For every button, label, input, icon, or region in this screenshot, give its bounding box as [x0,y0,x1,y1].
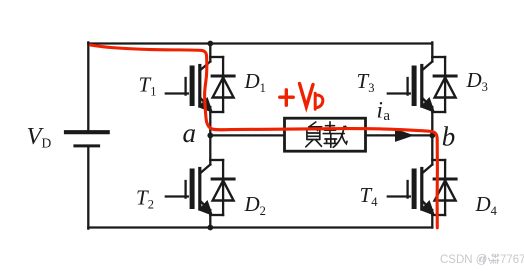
svg-text:T4: T4 [360,183,379,209]
svg-text:a: a [183,118,197,148]
svg-text:D3: D3 [466,68,488,94]
transistor T4 [388,135,434,227]
node junction bottom of T2 leg [207,225,213,231]
svg-text:D1: D1 [244,69,266,95]
current arrow ia [396,130,413,142]
svg-text:VD: VD [27,123,52,151]
wire node a to load [210,134,284,136]
wire left branch lower (battery to bottom rail) [87,146,89,229]
battery VD plates [66,132,108,146]
svg-text:T2: T2 [136,186,154,212]
diode D1 [210,57,234,112]
diode D3 [432,57,456,112]
wire load to node b [366,134,433,136]
svg-text:D4: D4 [475,192,498,218]
watermark [440,254,524,266]
wire bottom rail [88,226,432,228]
red annotation +VD [280,84,323,110]
svg-text:D2: D2 [244,192,266,218]
svg-text:T1: T1 [139,73,157,99]
transistor T3 [388,42,434,135]
diode D4 [432,160,456,215]
node a [207,133,213,139]
svg-text:b: b [442,121,456,151]
wire left branch upper (rail corner to battery) [87,42,89,130]
wire top rail [88,42,432,44]
load box [285,118,366,151]
transistor T1 [166,44,212,136]
transistor T2 [166,135,212,227]
svg-text:ia: ia [377,98,391,125]
node junction top of T1 leg [207,41,213,47]
svg-text:7767: 7767 [500,254,524,266]
diode D2 [210,160,234,215]
load text 负载 [306,122,348,148]
svg-text:T3: T3 [357,69,375,95]
node b [429,133,435,139]
red annotation current path [91,45,438,228]
